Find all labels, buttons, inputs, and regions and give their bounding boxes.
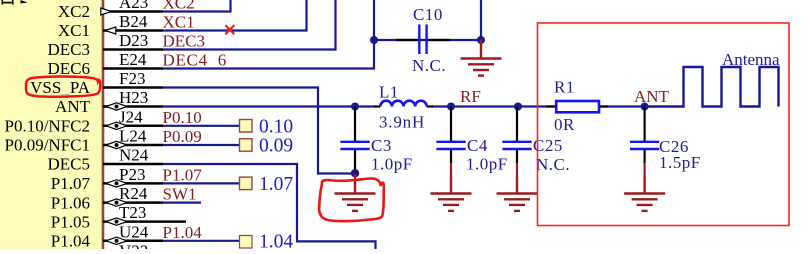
svg-text:VSS_PA: VSS_PA <box>30 78 91 97</box>
svg-text:1.07: 1.07 <box>259 174 293 195</box>
node junction ANT <box>641 103 649 111</box>
pin stub B24 <box>103 29 163 32</box>
svg-text:P0.09/NFC1: P0.09/NFC1 <box>5 136 91 155</box>
svg-text:R24: R24 <box>119 184 148 203</box>
svg-text:DEC5: DEC5 <box>48 155 91 174</box>
port 0.09 <box>240 136 294 157</box>
svg-text:F23: F23 <box>119 69 145 88</box>
red annotation scribble around C3 ground <box>319 178 384 221</box>
node junction C10 left <box>370 36 378 44</box>
svg-text:C10: C10 <box>413 5 443 24</box>
svg-text:XC1: XC1 <box>58 21 90 40</box>
pin stub P23 <box>103 182 163 185</box>
svg-text:3.9nH: 3.9nH <box>379 113 425 132</box>
svg-text:A23: A23 <box>119 0 148 12</box>
wire C10 top right <box>480 0 482 40</box>
svg-text:C3: C3 <box>371 136 392 155</box>
pin marker T23 diamond <box>106 218 127 225</box>
svg-text:E24: E24 <box>119 50 147 69</box>
pin stub L24 <box>103 144 163 147</box>
pin marker B24 input triangle <box>105 27 116 34</box>
svg-text:N24: N24 <box>119 146 149 165</box>
svg-text:P0.10: P0.10 <box>163 108 202 127</box>
capacitor C3 <box>340 107 369 172</box>
svg-text:T23: T23 <box>119 203 146 222</box>
svg-text:P0.10/NFC2: P0.10/NFC2 <box>5 117 91 136</box>
port 1.07 <box>240 174 294 195</box>
wire P1.07 to port <box>163 182 240 184</box>
svg-text:P1.04: P1.04 <box>163 223 203 242</box>
svg-text:0.09: 0.09 <box>259 136 293 157</box>
pin stub F23 <box>103 86 163 89</box>
wire RF between L1 and R1 <box>432 105 556 107</box>
wire DEC4_6 <box>163 40 374 69</box>
pin stub U24 <box>103 240 163 243</box>
pin marker U24 diamond <box>106 237 127 244</box>
svg-text:0R: 0R <box>554 115 575 134</box>
wire P1.04 to port <box>163 240 240 242</box>
pin marker L24 diamond <box>106 141 127 148</box>
node junction C3 top <box>351 103 359 111</box>
svg-text:P1.05: P1.05 <box>51 212 90 231</box>
wire C10 horizontal <box>374 39 481 41</box>
pin stub T23 <box>103 220 186 223</box>
svg-text:H23: H23 <box>119 88 148 107</box>
svg-text:ANT: ANT <box>634 87 670 106</box>
stray pin glyph top-left <box>2 0 28 5</box>
svg-text:P0.09: P0.09 <box>163 127 202 146</box>
pin marker R24 diamond <box>106 199 127 206</box>
svg-text:J24: J24 <box>119 107 143 126</box>
wire SW1 <box>163 202 201 204</box>
node junction C10 right <box>477 36 485 44</box>
svg-text:DEC4 6: DEC4 6 <box>163 51 227 70</box>
capacitor C25 <box>502 107 531 179</box>
ground C4 <box>431 177 472 211</box>
svg-text:U24: U24 <box>119 222 149 241</box>
pin stub D23 <box>103 48 163 51</box>
svg-text:1.0pF: 1.0pF <box>371 155 413 174</box>
port 1.04 <box>240 232 294 253</box>
svg-text:DEC3: DEC3 <box>48 40 91 59</box>
svg-text:N.C.: N.C. <box>536 155 570 174</box>
wire VSS_PA F23 to ground <box>163 88 355 174</box>
svg-text:B24: B24 <box>119 12 148 31</box>
capacitor C4 <box>436 107 465 179</box>
svg-text:P1.07: P1.07 <box>51 174 91 193</box>
wire XC1 <box>163 0 307 31</box>
wire RF main line <box>163 105 375 107</box>
capacitor C26 <box>630 107 659 179</box>
wire XC2 <box>163 0 231 12</box>
wire R1 to ANT <box>600 105 645 107</box>
svg-text:XC2: XC2 <box>58 2 90 21</box>
pin stub H23 <box>103 105 163 108</box>
red annotation ellipse around VSS_PA <box>26 76 100 96</box>
ground C26 <box>624 177 665 211</box>
svg-text:C4: C4 <box>467 136 488 155</box>
svg-text:P1.04: P1.04 <box>51 232 91 250</box>
svg-text:ANT: ANT <box>55 97 91 116</box>
svg-text:0.10: 0.10 <box>259 117 293 138</box>
pin marker J24 diamond <box>106 122 127 129</box>
port 0.10 <box>240 117 294 138</box>
capacitor C10 <box>396 25 450 55</box>
inductor L1 <box>374 101 433 107</box>
svg-text:L24: L24 <box>119 127 147 146</box>
node junction C3 bottom <box>351 169 359 177</box>
pin marker P23 diamond <box>106 180 127 187</box>
wire DEC5 <box>163 164 376 249</box>
svg-text:SW1: SW1 <box>163 185 197 204</box>
svg-text:P1.06: P1.06 <box>51 193 90 212</box>
pin stub R24 <box>103 201 163 204</box>
svg-text:Antenna: Antenna <box>722 50 780 69</box>
ground C3 <box>335 174 376 211</box>
ground C25 <box>497 177 538 211</box>
pin marker H23 diamond <box>106 103 127 110</box>
svg-text:DEC3: DEC3 <box>163 32 206 51</box>
red annotation X mark <box>225 25 234 34</box>
red annotation box around antenna section <box>538 23 790 226</box>
svg-text:L1: L1 <box>379 83 399 102</box>
antenna ANT1 meander <box>645 67 779 107</box>
svg-text:1.0pF: 1.0pF <box>466 155 508 174</box>
svg-text:R1: R1 <box>554 78 575 97</box>
pin stub N24 <box>103 163 163 166</box>
wire DEC3 <box>163 0 336 50</box>
svg-text:N.C.: N.C. <box>412 56 446 75</box>
svg-text:P23: P23 <box>119 165 145 184</box>
node junction C25 top <box>514 103 522 111</box>
pin stub A23 <box>103 10 163 13</box>
svg-text:D23: D23 <box>119 31 148 50</box>
pin marker A23 output triangle <box>101 8 112 15</box>
pin stub J24 <box>103 125 163 128</box>
pin stub E24 <box>103 67 163 70</box>
resistor R1 <box>546 101 608 112</box>
svg-text:RF: RF <box>460 87 481 106</box>
svg-text:1.5pF: 1.5pF <box>659 153 701 172</box>
wire P0.09 to port <box>163 144 240 146</box>
svg-text:P1.07: P1.07 <box>163 165 203 184</box>
wire C10 top left <box>373 0 375 40</box>
wire P0.10 to port <box>163 125 240 127</box>
svg-text:XC1: XC1 <box>163 13 195 32</box>
svg-text:1.04: 1.04 <box>259 232 293 250</box>
IC U1 body <box>0 0 103 254</box>
ground C10 <box>461 40 502 76</box>
node junction C4 top <box>447 103 455 111</box>
